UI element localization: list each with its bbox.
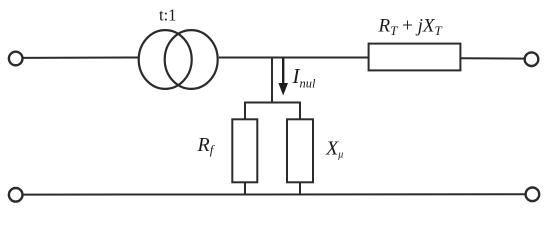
svg-text:RT + jXT: RT + jXT bbox=[378, 16, 443, 39]
resistor Xu body bbox=[287, 119, 313, 182]
terminal bottom-left bbox=[9, 188, 23, 202]
terminal top-left bbox=[9, 52, 23, 66]
wire bottom horizontal bbox=[23, 193, 526, 195]
transformer T1 secondary winding bbox=[165, 30, 218, 89]
wire stub to Rf top bbox=[244, 102, 246, 121]
wire top-left horizontal bbox=[23, 57, 138, 59]
wire stub Xu bottom bbox=[299, 182, 301, 195]
terminal bottom-right bbox=[526, 188, 540, 202]
node A junction vertical wire bbox=[271, 57, 273, 104]
resistor RT body bbox=[369, 44, 461, 71]
resistor Rf body bbox=[232, 119, 257, 182]
wire shunt top bar bbox=[244, 102, 301, 104]
wire transformer to node A bbox=[219, 57, 273, 59]
svg-text:t:1: t:1 bbox=[159, 6, 176, 25]
transformer T1 primary winding bbox=[139, 30, 192, 89]
wire stub Rf bottom bbox=[244, 182, 246, 195]
terminal top-right bbox=[525, 52, 539, 66]
svg-text:Inul: Inul bbox=[292, 64, 317, 91]
current arrow Inul shaft bbox=[282, 59, 284, 85]
wire stub to Xu top bbox=[299, 102, 301, 121]
svg-text:Rf: Rf bbox=[197, 134, 216, 157]
wire resistor RT to terminal top-right bbox=[460, 57, 524, 59]
svg-text:Xμ: Xμ bbox=[325, 138, 343, 161]
current arrow Inul head bbox=[278, 83, 288, 96]
wire node A to resistor RT bbox=[272, 57, 370, 59]
